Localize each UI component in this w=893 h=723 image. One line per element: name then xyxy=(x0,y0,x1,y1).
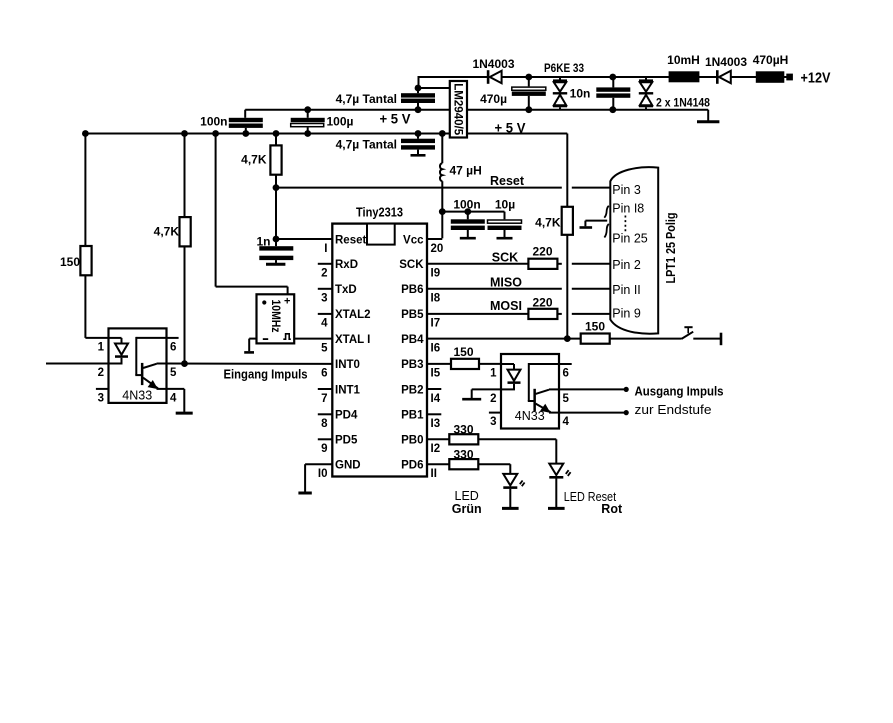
svg-text:8: 8 xyxy=(321,418,328,430)
wire PB0 line xyxy=(427,438,449,440)
svg-text:+: + xyxy=(284,296,290,308)
oscillator plus mark xyxy=(284,296,290,308)
wire +12V top rail segment right xyxy=(731,76,788,78)
svg-text:+12V: +12V xyxy=(801,70,831,87)
terminal +12V blob xyxy=(786,74,793,81)
wire opto1 pin5 to INT0 xyxy=(167,363,333,365)
node 150 feed junction xyxy=(82,130,89,137)
svg-text:4: 4 xyxy=(170,392,177,404)
svg-text:Pin 3: Pin 3 xyxy=(612,183,641,197)
wire PD6 line xyxy=(427,463,449,465)
diodes D3 2x1N4148 xyxy=(639,77,653,110)
label +12V xyxy=(801,70,831,87)
label 2 x 1N4148 xyxy=(656,96,710,110)
node regulator input junction xyxy=(415,85,422,92)
svg-text:4N33: 4N33 xyxy=(122,389,152,403)
capacitor 4,7u tantal (input) xyxy=(401,88,435,110)
label SCK xyxy=(492,250,518,264)
svg-text:4: 4 xyxy=(563,416,570,428)
label 330 (red) xyxy=(453,423,473,437)
node 470u top junction xyxy=(525,74,532,81)
node reset junction xyxy=(273,184,280,191)
svg-text:PD4: PD4 xyxy=(335,410,358,422)
svg-text:4,7K: 4,7K xyxy=(241,153,267,167)
label 4,7u Tantal (output) xyxy=(336,138,397,152)
ground bundle stub xyxy=(580,226,593,229)
pin 4 XTAL2 xyxy=(318,309,371,330)
svg-text:5: 5 xyxy=(563,393,570,405)
wire +5V rail xyxy=(85,133,567,135)
label Ausgang Impuls xyxy=(635,384,724,398)
svg-text:2: 2 xyxy=(321,268,327,280)
pin 11 PD6 xyxy=(401,460,437,481)
TVS D2 P6KE33 xyxy=(553,77,567,110)
resistor 4,7K (opto1 pullup) xyxy=(180,134,191,364)
label 1n xyxy=(256,235,270,249)
svg-text:I3: I3 xyxy=(431,418,441,430)
node 100u bottom junction xyxy=(304,130,311,137)
label 470uH xyxy=(753,53,789,67)
node 47uH top junction xyxy=(439,130,446,137)
svg-text:I0: I0 xyxy=(318,468,328,480)
pin 15 PB3 xyxy=(401,359,441,380)
svg-text:3: 3 xyxy=(98,392,104,404)
inductor 47uH xyxy=(440,134,442,212)
bundle arc lower xyxy=(604,224,608,238)
wire PB2 stub xyxy=(427,388,441,390)
svg-text:II: II xyxy=(431,468,437,480)
resistor 330 (red) xyxy=(449,434,478,444)
svg-text:4: 4 xyxy=(321,318,328,330)
label P6KE 33 xyxy=(544,61,584,75)
node 470u bottom junction xyxy=(525,106,532,113)
svg-text:20: 20 xyxy=(431,243,444,255)
svg-text:GND: GND xyxy=(335,460,361,472)
label 4,7K (reset) xyxy=(241,153,267,167)
svg-text:I5: I5 xyxy=(431,368,441,380)
label Reset xyxy=(490,174,525,188)
diode D1 1N4003 xyxy=(487,70,502,84)
label Pin 11 xyxy=(612,283,641,297)
svg-text:Pin 9: Pin 9 xyxy=(612,306,641,320)
svg-text:3: 3 xyxy=(490,416,496,428)
svg-text:RxD: RxD xyxy=(335,259,358,271)
svg-text:Pin 2: Pin 2 xyxy=(612,258,641,272)
svg-text:5: 5 xyxy=(321,342,328,354)
svg-text:9: 9 xyxy=(321,443,327,455)
ground red LED xyxy=(548,507,565,510)
wire opto1 pin3 stub xyxy=(96,388,109,390)
oscillator X1 10MHz body xyxy=(257,294,295,343)
pin 7 INT1 xyxy=(318,384,361,405)
svg-text:1N4003: 1N4003 xyxy=(472,57,514,71)
svg-text:2: 2 xyxy=(490,393,496,405)
svg-text:MOSI: MOSI xyxy=(490,299,522,313)
pin 18 PB6 xyxy=(401,284,441,305)
svg-text:470µ: 470µ xyxy=(480,92,507,106)
svg-text:I7: I7 xyxy=(431,318,441,330)
label 220 (SCK) xyxy=(532,245,552,259)
inductor 470uH xyxy=(756,71,785,83)
svg-text:4N33: 4N33 xyxy=(515,409,545,423)
label Pin 2 xyxy=(612,258,641,272)
bundle arc upper xyxy=(604,206,609,218)
svg-text:4,7K: 4,7K xyxy=(535,216,561,230)
label 47 uH xyxy=(450,164,482,178)
svg-text:I2: I2 xyxy=(431,443,441,455)
svg-text:10MHz: 10MHz xyxy=(269,300,283,333)
optocoupler U3 4N33 xyxy=(98,328,177,404)
svg-text:PB1: PB1 xyxy=(401,410,424,422)
label Eingang Impuls xyxy=(224,368,308,382)
svg-text:+ 5 V: + 5 V xyxy=(380,111,412,127)
node oscillator feed junction xyxy=(212,130,219,137)
IC U1 Tiny2313 body xyxy=(332,224,427,477)
node 4,7K opto top junction xyxy=(181,130,188,137)
wire regulator input drop xyxy=(418,76,451,88)
label 1N4003 (D4) xyxy=(705,55,747,69)
pin 19 SCK xyxy=(399,259,440,280)
capacitor 10n (top) xyxy=(596,77,630,110)
svg-text:220: 220 xyxy=(532,295,552,309)
node PB4 junction xyxy=(564,335,571,342)
svg-text:2 x 1N4148: 2 x 1N4148 xyxy=(656,96,710,110)
node 100u top junction xyxy=(304,106,311,113)
label + 5 V (left) xyxy=(380,111,412,127)
regulator U2 LM2940/5 xyxy=(450,81,467,138)
svg-text:1N4003: 1N4003 xyxy=(705,55,747,69)
label 4,7u Tantal (input) xyxy=(336,92,397,106)
ground opto1 xyxy=(176,412,193,415)
label Pin 18 xyxy=(612,201,644,215)
wire vcc drop to pin20 xyxy=(427,212,442,239)
pin 2 RxD xyxy=(318,259,358,280)
svg-text:Reset: Reset xyxy=(335,234,366,246)
wire Ausgang pin5 xyxy=(559,387,629,392)
wire MOSI line xyxy=(427,313,610,315)
svg-text:100µ: 100µ xyxy=(327,115,354,129)
pin 1 Reset xyxy=(324,234,366,255)
svg-text:Ausgang Impuls: Ausgang Impuls xyxy=(635,384,724,398)
svg-text:4,7µ Tantal: 4,7µ Tantal xyxy=(336,92,397,106)
wire +12V top rail segment middle xyxy=(502,76,716,78)
label 1N4003 (D1) xyxy=(472,57,514,71)
wire PB4 to switch xyxy=(610,338,682,340)
svg-text:PB5: PB5 xyxy=(401,309,424,321)
capacitor 100n (rail) xyxy=(229,110,263,134)
wire PB4 line xyxy=(427,338,581,340)
node INT0 junction xyxy=(181,360,188,367)
label 100u xyxy=(327,115,354,129)
wire red LED cathode xyxy=(555,479,557,508)
label 4,7K (opto1) xyxy=(154,225,180,239)
resistor 4,7K (PB4 pullup) xyxy=(562,207,573,339)
wire to green LED xyxy=(479,464,510,474)
node 4,7K reset top junction xyxy=(273,130,280,137)
pin 13 PB1 xyxy=(401,410,440,431)
label 100n (rail) xyxy=(200,115,227,129)
svg-text:I9: I9 xyxy=(431,268,441,280)
wire green LED cathode xyxy=(509,489,511,507)
svg-text:Pin 25: Pin 25 xyxy=(612,231,647,245)
label 220 (MOSI) xyxy=(532,295,552,309)
pin 3 TxD xyxy=(318,284,357,305)
wire +5V to oscillator xyxy=(216,134,288,295)
inductor 10mH xyxy=(669,71,700,82)
label 150 (opto2) xyxy=(453,345,473,359)
svg-text:100n: 100n xyxy=(453,198,480,212)
label Pin 9 xyxy=(612,306,641,320)
svg-text:6: 6 xyxy=(321,368,327,380)
LED D6 red xyxy=(549,464,570,479)
label LED (green) xyxy=(455,489,479,503)
diode D4 1N4003 xyxy=(716,70,731,84)
node 10n bottom junction xyxy=(609,106,616,113)
wire zur Endstufe pin4 xyxy=(559,410,629,415)
svg-text:PB3: PB3 xyxy=(401,359,423,371)
capacitor 470u electrolytic xyxy=(512,77,546,110)
svg-text:PB4: PB4 xyxy=(401,334,424,346)
svg-text:PB2: PB2 xyxy=(401,384,423,396)
svg-text:150: 150 xyxy=(60,255,80,269)
svg-text:10µ: 10µ xyxy=(495,198,515,212)
wire opto2 pin6 stub xyxy=(559,363,572,365)
pin 16 PB4 xyxy=(401,334,440,355)
svg-text:TxD: TxD xyxy=(335,284,357,296)
pin 17 PB5 xyxy=(401,309,440,330)
svg-text:1n: 1n xyxy=(256,235,270,249)
svg-text:PD5: PD5 xyxy=(335,435,358,447)
svg-text:150: 150 xyxy=(585,320,605,334)
wire +5V down to pullup resistor xyxy=(566,134,568,207)
node 10n top junction xyxy=(609,74,616,81)
pin 8 PD4 xyxy=(318,410,358,431)
svg-text:LED: LED xyxy=(455,489,479,503)
wire pin18 bundle ground xyxy=(585,221,607,227)
label 10n (top) xyxy=(570,87,591,101)
label Pin 25 xyxy=(612,231,647,245)
node 1n junction xyxy=(273,236,280,243)
wire opto1 pin4 to ground xyxy=(167,389,185,412)
svg-text:I6: I6 xyxy=(431,342,441,354)
pin 6 INT0 xyxy=(321,359,360,380)
resistor 220 (SCK) xyxy=(528,259,557,269)
wire reset line xyxy=(276,187,610,189)
switch S1 xyxy=(682,327,694,339)
ground opto2 xyxy=(462,398,481,401)
pin 14 PB2 xyxy=(401,384,441,405)
label Rot xyxy=(601,502,623,516)
ground green LED xyxy=(502,507,519,510)
svg-text:470µH: 470µH xyxy=(753,53,789,67)
svg-text:XTAL I: XTAL I xyxy=(335,334,370,346)
node vcc filter junction xyxy=(439,208,446,215)
label MISO xyxy=(490,275,522,289)
svg-text:1: 1 xyxy=(490,368,497,380)
connector J1 LPT1 25-pin body xyxy=(610,167,658,334)
label 150 (PB4) xyxy=(585,320,605,334)
resistor 220 (MOSI) xyxy=(528,309,557,319)
svg-text:SCK: SCK xyxy=(399,259,424,271)
optocoupler U4 4N33 xyxy=(490,354,569,429)
svg-text:PB6: PB6 xyxy=(401,284,423,296)
ground top-right xyxy=(697,120,719,123)
wire reset to pin1 xyxy=(276,238,332,240)
wire opto1 pin6 stub xyxy=(167,337,179,339)
ground oscillator xyxy=(244,351,254,354)
svg-text:PD6: PD6 xyxy=(401,460,423,472)
svg-text:330: 330 xyxy=(453,447,473,461)
svg-text:Rot: Rot xyxy=(601,502,623,516)
wire +12V top rail segment left xyxy=(419,76,488,78)
svg-text:Grün: Grün xyxy=(452,502,482,516)
node tantal1 bottom junction xyxy=(415,106,422,113)
oscillator pulse mark xyxy=(283,334,291,339)
svg-text:6: 6 xyxy=(170,341,176,353)
wire opto2 pin3 stub xyxy=(489,412,501,414)
label 330 (green) xyxy=(453,447,473,461)
svg-text:Vcc: Vcc xyxy=(403,234,424,246)
LED D5 green xyxy=(503,474,524,489)
label 10u xyxy=(495,198,515,212)
pin 20 Vcc xyxy=(403,234,443,255)
resistor 330 (green) xyxy=(449,459,478,469)
wire PB1 stub xyxy=(427,413,441,415)
node 100n vcc junction xyxy=(464,208,471,215)
svg-text:INT0: INT0 xyxy=(335,359,360,371)
resistor 4,7K reset pullup xyxy=(270,134,281,188)
svg-text:SCK: SCK xyxy=(492,250,518,264)
node 100n bottom junction xyxy=(242,130,249,137)
wire 150 to opto2 pin1 xyxy=(479,363,501,365)
svg-text:47 µH: 47 µH xyxy=(450,164,482,178)
svg-text:330: 330 xyxy=(453,423,473,437)
svg-text:XTAL2: XTAL2 xyxy=(335,309,371,321)
pin 12 PB0 xyxy=(401,435,440,456)
wire ground rail to earth corner xyxy=(707,110,709,121)
bundle dotted line xyxy=(624,216,626,234)
svg-text:I4: I4 xyxy=(431,393,441,405)
svg-text:3: 3 xyxy=(321,293,327,305)
capacitor 4,7u tantal (output) xyxy=(401,134,435,156)
pin 9 PD5 xyxy=(318,435,358,456)
oscillator minus mark xyxy=(263,338,268,340)
resistor 150 (opto1 feed) xyxy=(80,134,91,338)
label Gruen xyxy=(452,502,482,516)
svg-text:LPT1 25 Polig: LPT1 25 Polig xyxy=(664,213,678,284)
svg-text:Pin I8: Pin I8 xyxy=(612,201,644,215)
svg-text:I8: I8 xyxy=(431,293,441,305)
svg-text:2: 2 xyxy=(98,367,104,379)
wire opto2 pin2 ground xyxy=(472,389,501,398)
terminal switch end bar xyxy=(720,333,723,346)
wire PB3 line xyxy=(427,363,451,365)
svg-text:I: I xyxy=(324,243,327,255)
svg-text:220: 220 xyxy=(532,245,552,259)
svg-text:Eingang Impuls: Eingang Impuls xyxy=(224,368,308,382)
svg-text:6: 6 xyxy=(563,368,569,380)
svg-text:100n: 100n xyxy=(200,115,227,129)
label 470u xyxy=(480,92,507,106)
resistor 150 (opto2) xyxy=(451,359,479,369)
wire SCK line xyxy=(427,263,610,265)
svg-text:P6KE 33: P6KE 33 xyxy=(544,61,584,75)
label 150 (left) xyxy=(60,255,80,269)
label Tiny2313 xyxy=(356,206,403,220)
wire to red LED xyxy=(479,439,556,463)
svg-text:Pin II: Pin II xyxy=(612,283,641,297)
node tantal2 top junction xyxy=(415,130,422,137)
svg-text:INT1: INT1 xyxy=(335,384,361,396)
pin 5 XTAL I xyxy=(321,334,370,355)
svg-text:zur Endstufe: zur Endstufe xyxy=(635,403,712,417)
label zur Endstufe xyxy=(635,403,712,417)
svg-text:LM2940/5: LM2940/5 xyxy=(452,83,466,135)
ground mcu xyxy=(298,492,311,495)
wire MISO line xyxy=(427,288,610,290)
svg-text:1: 1 xyxy=(98,341,105,353)
svg-text:4,7K: 4,7K xyxy=(154,225,180,239)
wire switch to end xyxy=(693,338,721,340)
svg-text:+ 5 V: + 5 V xyxy=(495,120,527,136)
capacitor 100n (vcc) xyxy=(451,212,485,239)
wire eingang line pin2 xyxy=(46,363,109,365)
wire reset to mcu node xyxy=(275,188,277,239)
label 10MHz xyxy=(269,300,283,333)
svg-text:Reset: Reset xyxy=(490,174,525,188)
capacitor 100u electrolytic xyxy=(291,110,325,134)
wire GND pin10 xyxy=(305,464,332,492)
svg-text:150: 150 xyxy=(453,345,473,359)
wire vcc decoupling node xyxy=(442,211,504,213)
svg-text:4,7µ Tantal: 4,7µ Tantal xyxy=(336,138,397,152)
svg-text:7: 7 xyxy=(321,393,327,405)
resistor 150 (PB4) xyxy=(581,334,610,344)
svg-text:Tiny2313: Tiny2313 xyxy=(356,206,403,220)
svg-text:10n: 10n xyxy=(570,87,591,101)
label + 5 V (right) xyxy=(495,120,527,136)
label 10mH xyxy=(667,53,700,67)
wire ground rail xyxy=(245,109,708,111)
wire oscillator ground xyxy=(249,339,256,352)
capacitor 10u electrolytic xyxy=(488,212,522,239)
oscillator dot mark xyxy=(262,300,266,304)
label MOSI xyxy=(490,299,522,313)
svg-text:MISO: MISO xyxy=(490,275,522,289)
label 100n (vcc) xyxy=(453,198,480,212)
label Pin 3 xyxy=(612,183,641,197)
pin 10 GND xyxy=(318,460,361,481)
label LPT1 25 Polig xyxy=(664,213,678,284)
label 4,7K (PB4) xyxy=(535,216,561,230)
wire 150 to opto pin1 xyxy=(85,337,108,339)
svg-text:5: 5 xyxy=(170,367,177,379)
wire oscillator output to XTAL1 xyxy=(294,338,332,340)
svg-text:PB0: PB0 xyxy=(401,435,423,447)
svg-text:10mH: 10mH xyxy=(667,53,700,67)
label LED Reset xyxy=(564,490,617,504)
capacitor 1n xyxy=(259,239,293,264)
